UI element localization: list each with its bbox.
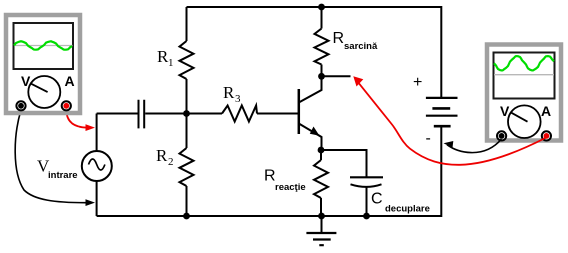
M1 label V bbox=[21, 73, 31, 89]
label battery minus bbox=[426, 130, 431, 147]
M2 label A bbox=[541, 103, 551, 119]
node R2 bottom dot bbox=[183, 213, 190, 220]
svg-text:intrare: intrare bbox=[48, 170, 78, 181]
resistor R3 bbox=[222, 106, 257, 122]
M2 screen bbox=[494, 53, 555, 99]
svg-text:R: R bbox=[156, 146, 168, 165]
svg-text:reacţie: reacţie bbox=[275, 182, 306, 193]
source V1 sine symbol bbox=[82, 151, 112, 181]
resistor R_reactie bbox=[314, 150, 328, 216]
svg-text:A: A bbox=[65, 73, 75, 89]
transistor Q1 bbox=[299, 76, 322, 150]
arrow red probe M2 to collector bbox=[353, 76, 546, 165]
M2 label V bbox=[500, 103, 510, 119]
svg-text:+: + bbox=[413, 74, 422, 91]
svg-text:A: A bbox=[541, 103, 551, 119]
M2 dial bbox=[508, 105, 541, 138]
M1 screen bbox=[14, 23, 74, 69]
wire input base line bbox=[97, 113, 298, 115]
ground bbox=[306, 216, 336, 245]
capacitor C_decuplare bbox=[350, 177, 383, 216]
multimeter M2 frame bbox=[487, 45, 561, 141]
resistor R2 bbox=[180, 114, 194, 217]
label C_decuplare bbox=[371, 191, 430, 215]
node ground dot bbox=[318, 213, 325, 220]
svg-text:R: R bbox=[223, 83, 235, 102]
node C_decuplare bottom dot bbox=[363, 213, 370, 220]
svg-text:-: - bbox=[426, 130, 431, 147]
node base dot bbox=[183, 110, 190, 117]
svg-text:C: C bbox=[371, 191, 383, 208]
svg-text:R: R bbox=[264, 168, 276, 185]
M2 trace bbox=[494, 56, 554, 70]
svg-text:2: 2 bbox=[168, 156, 174, 168]
wire top rail bbox=[187, 7, 442, 98]
arrow black probe M1 to input bottom wire bbox=[15, 110, 95, 206]
label V_intrare bbox=[37, 157, 78, 182]
svg-text:decuplare: decuplare bbox=[385, 204, 430, 215]
svg-text:R: R bbox=[333, 30, 345, 47]
capacitor C1 coupling bbox=[139, 100, 145, 129]
label R1 bbox=[157, 47, 174, 69]
M1 terminal black bbox=[16, 101, 25, 110]
label R2 bbox=[156, 146, 174, 168]
arrow black probe M2 to battery minus bbox=[444, 139, 502, 153]
M1 trace bbox=[14, 41, 72, 49]
svg-text:sarcină: sarcină bbox=[344, 41, 378, 52]
M1 label A bbox=[65, 73, 75, 89]
wire collector stub bbox=[322, 75, 351, 77]
label R3 bbox=[223, 83, 241, 105]
multimeter M1 frame bbox=[6, 15, 80, 113]
svg-text:3: 3 bbox=[235, 93, 241, 105]
svg-text:1: 1 bbox=[168, 57, 174, 69]
M1 dial bbox=[28, 76, 60, 108]
arrow red probe M1 to input node bbox=[66, 110, 95, 131]
M2 terminal black bbox=[497, 131, 506, 140]
node collector dot bbox=[318, 73, 325, 80]
label R_reactie bbox=[264, 168, 306, 194]
wire emitter to C_decuplare bbox=[321, 150, 367, 177]
M2 terminal red bbox=[542, 131, 551, 140]
node emitter dot bbox=[318, 147, 325, 154]
wire source branch bbox=[96, 114, 98, 217]
resistor R_sarcina bbox=[315, 7, 329, 76]
node top rail dot bbox=[318, 4, 325, 11]
resistor R1 bbox=[180, 7, 194, 114]
battery B1 bbox=[426, 98, 458, 126]
label battery plus bbox=[413, 74, 422, 91]
wire bottom rail bbox=[97, 126, 442, 216]
label R_sarcina bbox=[333, 30, 378, 52]
M1 terminal red bbox=[62, 101, 71, 110]
